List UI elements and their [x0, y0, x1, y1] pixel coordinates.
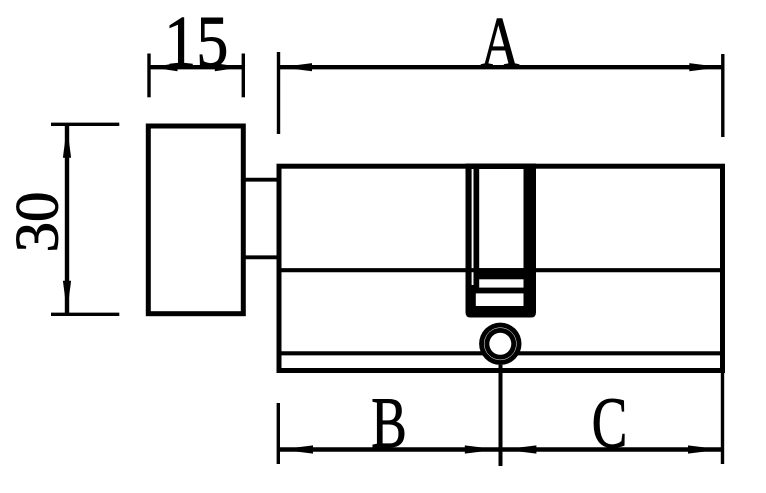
svg-text:A: A — [481, 2, 520, 82]
svg-text:B: B — [371, 383, 407, 463]
svg-text:C: C — [592, 383, 628, 463]
svg-text:15: 15 — [164, 1, 228, 82]
svg-text:30: 30 — [5, 192, 72, 253]
